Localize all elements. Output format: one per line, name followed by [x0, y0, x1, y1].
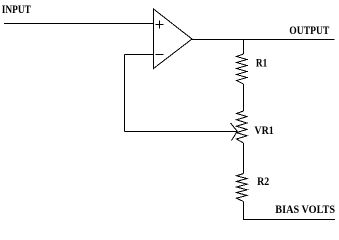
resistor R1	[237, 54, 248, 84]
svg-text:OUTPUT: OUTPUT	[289, 25, 329, 37]
svg-text:R1: R1	[256, 58, 267, 70]
wire output branch to R1	[243, 40, 245, 55]
wire bias volts	[243, 219, 335, 221]
wire VR1 to R2	[243, 143, 245, 174]
op-amp U1	[154, 9, 193, 69]
wire feedback vertical	[124, 55, 126, 132]
wire R1 to VR1	[243, 84, 245, 111]
wire input to op-amp +	[4, 23, 154, 25]
svg-text:VR1: VR1	[254, 125, 274, 137]
wire output	[192, 39, 335, 41]
op-amp + input symbol	[156, 21, 164, 29]
wire feedback horizontal to VR1 wiper	[125, 131, 238, 133]
svg-text:R2: R2	[257, 176, 269, 188]
wire R2 down	[243, 202, 245, 220]
svg-text:INPUT: INPUT	[2, 4, 31, 16]
VR1 wiper arrowhead	[231, 123, 238, 141]
resistor R2	[237, 174, 248, 202]
wire inverting input	[125, 54, 154, 56]
svg-text:BIAS VOLTS: BIAS VOLTS	[275, 204, 335, 216]
op-amp - input symbol	[156, 54, 164, 56]
potentiometer VR1	[237, 111, 248, 143]
